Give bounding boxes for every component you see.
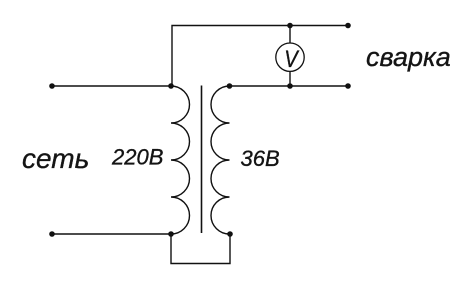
- wire: top horizontal from left vertical to welding upper terminal: [172, 26, 348, 87]
- node: mains lower terminal: [49, 231, 55, 237]
- wire: voltmeter bottom lead: [289, 71, 291, 86]
- transformer T1 core: [201, 86, 203, 234]
- node: welding lower terminal: [345, 83, 351, 89]
- wire: bottom U link between winding bottoms: [171, 234, 230, 264]
- svg-text:V: V: [284, 46, 299, 73]
- transformer T1 primary winding 220В: [171, 86, 190, 234]
- wire: upper mains stub: [52, 85, 172, 87]
- svg-text:сварка: сварка: [366, 42, 451, 72]
- node: primary bottom junction: [168, 231, 174, 237]
- svg-text:220В: 220В: [111, 145, 163, 170]
- transformer T1 secondary winding 36В: [211, 86, 229, 234]
- svg-text:36В: 36В: [241, 146, 280, 171]
- node: voltmeter top junction: [287, 23, 293, 29]
- svg-text:сеть: сеть: [22, 143, 89, 174]
- wire: secondary top to welding lower terminal: [230, 85, 349, 87]
- voltmeter V1 body: [276, 43, 304, 71]
- wire: lower mains stub: [52, 233, 171, 235]
- node: primary top junction: [168, 83, 174, 89]
- wire: voltmeter top lead: [289, 26, 291, 44]
- node: voltmeter bottom junction: [287, 83, 293, 89]
- node: welding upper terminal: [345, 23, 351, 29]
- node: mains upper terminal: [49, 83, 55, 89]
- node: secondary top junction: [227, 83, 233, 89]
- node: secondary bottom junction: [227, 231, 233, 237]
